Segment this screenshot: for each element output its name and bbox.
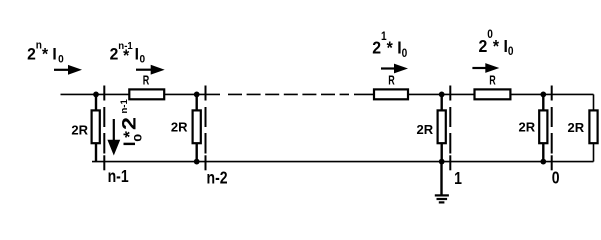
svg-text:2R: 2R — [519, 120, 536, 135]
svg-text:n-1: n-1 — [108, 166, 129, 186]
svg-text:2R: 2R — [171, 120, 188, 135]
svg-text:2R: 2R — [417, 122, 434, 137]
svg-text:R: R — [489, 74, 496, 88]
svg-text:2: 2 — [119, 117, 140, 130]
svg-text:R: R — [388, 74, 395, 88]
svg-text:2R: 2R — [71, 123, 88, 138]
svg-text:1: 1 — [454, 168, 462, 188]
svg-text:R: R — [143, 74, 150, 88]
svg-text:I: I — [120, 142, 139, 147]
svg-text:2R: 2R — [568, 120, 585, 135]
svg-text:n-2: n-2 — [207, 168, 228, 188]
svg-text:0: 0 — [552, 168, 560, 188]
svg-text:*: * — [120, 131, 139, 138]
svg-text:n-1: n-1 — [119, 99, 130, 114]
